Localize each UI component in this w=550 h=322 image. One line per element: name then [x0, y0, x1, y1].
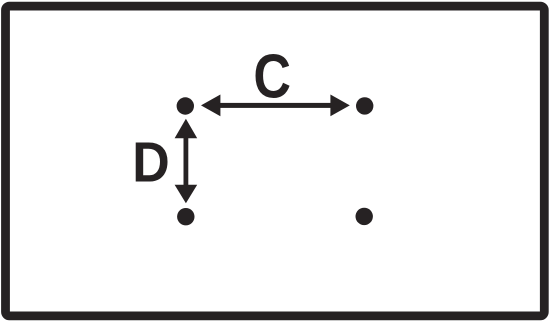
dot bottom-left [177, 208, 194, 225]
dot bottom-right [356, 208, 373, 225]
svg-text:C: C [253, 42, 291, 111]
horizontal double arrow C [201, 95, 350, 117]
vertical double arrow D [175, 119, 198, 204]
dot top-left [177, 97, 194, 114]
svg-text:D: D [132, 130, 169, 194]
dot top-right [356, 97, 373, 114]
